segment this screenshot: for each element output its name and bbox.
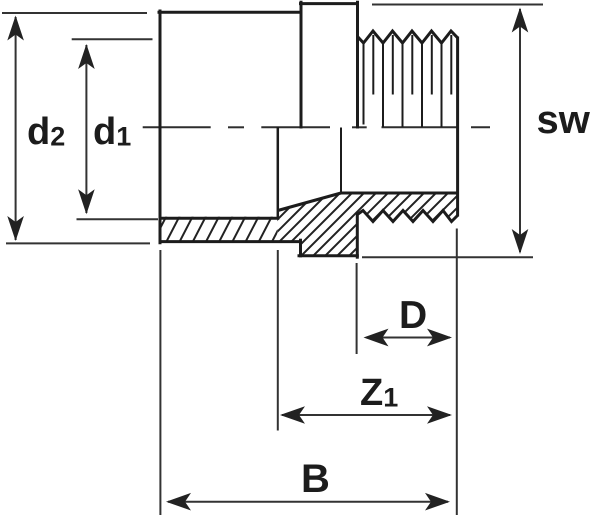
hex lower bump bottom edge bbox=[299, 254, 357, 257]
dimension d2 arrow bbox=[7, 16, 24, 242]
dimension SW bottom extension line bbox=[362, 256, 533, 258]
hex lower bump right edge bbox=[356, 214, 359, 257]
thread crest helix lines (short, below peaks) bbox=[373, 35, 451, 95]
thread root helix lines (long, from valleys) bbox=[364, 43, 442, 127]
dimension B left extension line bbox=[159, 250, 161, 515]
top edge socket bbox=[159, 11, 301, 14]
taper cone edge bbox=[278, 193, 341, 211]
dimension Z1 arrow bbox=[280, 406, 452, 424]
hex top edge bbox=[301, 2, 358, 5]
dimension d1 arrow bbox=[78, 44, 95, 214]
right end face edge bbox=[456, 37, 459, 217]
thread section zigzag (lower cut) bbox=[357, 211, 457, 222]
hex right edge bbox=[356, 2, 359, 127]
hex nut section bbox=[299, 2, 358, 257]
hatching threaded end wall (45 deg) bbox=[225, 188, 501, 260]
dimension D arrow bbox=[364, 329, 453, 347]
dimension D left extension line bbox=[356, 263, 358, 354]
socket inner end edge bbox=[277, 127, 280, 218]
male thread crest outline (top sawtooth) bbox=[358, 31, 458, 43]
right shared extension line bbox=[456, 229, 458, 516]
svg-text:D: D bbox=[399, 294, 427, 337]
taper end circle edge bbox=[340, 128, 342, 193]
hex lower bump left edge bbox=[299, 240, 302, 256]
dimension d2 top extension line bbox=[2, 12, 147, 14]
bottom edge socket bbox=[160, 240, 301, 243]
hex left edge bbox=[300, 2, 303, 127]
dimension B arrow bbox=[166, 493, 450, 511]
dimension d2 bottom extension line bbox=[6, 242, 150, 244]
svg-text:sw: sw bbox=[537, 98, 591, 142]
centerline (dash-dot axis) bbox=[143, 126, 490, 128]
dimension Z1 left extension line bbox=[277, 250, 279, 431]
left edge bbox=[159, 11, 162, 243]
thread bore line bbox=[341, 192, 458, 195]
dimension SW arrow bbox=[512, 8, 529, 255]
body outline: left socket bbox=[159, 11, 301, 243]
dimension d1 bottom extension line bbox=[77, 218, 159, 220]
socket bore line bbox=[160, 217, 278, 220]
svg-text:B: B bbox=[301, 457, 330, 501]
dimension SW top extension line bbox=[372, 4, 543, 6]
hatching left socket wall (steep) bbox=[152, 188, 501, 260]
dimension d1 top extension line bbox=[72, 38, 153, 40]
